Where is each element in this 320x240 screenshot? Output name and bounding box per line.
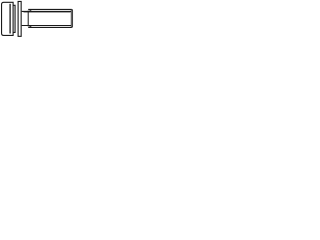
bolt side-view drawing xyxy=(0,0,80,38)
shank top shadow line xyxy=(24,12,71,14)
shank bottom line xyxy=(22,24,72,26)
thread crest top line xyxy=(28,8,72,10)
head hub (washer face) xyxy=(13,5,15,32)
washer xyxy=(18,1,21,36)
bolt head outline (rounded left, flat right) xyxy=(2,2,14,35)
shank top line xyxy=(22,10,72,12)
head facet line xyxy=(9,4,11,34)
thread crest bottom line xyxy=(28,26,72,28)
tip chamfer line xyxy=(70,9,72,27)
thread runout diagonal top xyxy=(29,10,32,12)
thread start vertical xyxy=(27,11,29,27)
thread runout diagonal bottom xyxy=(29,26,32,28)
tip end cap xyxy=(71,9,74,27)
